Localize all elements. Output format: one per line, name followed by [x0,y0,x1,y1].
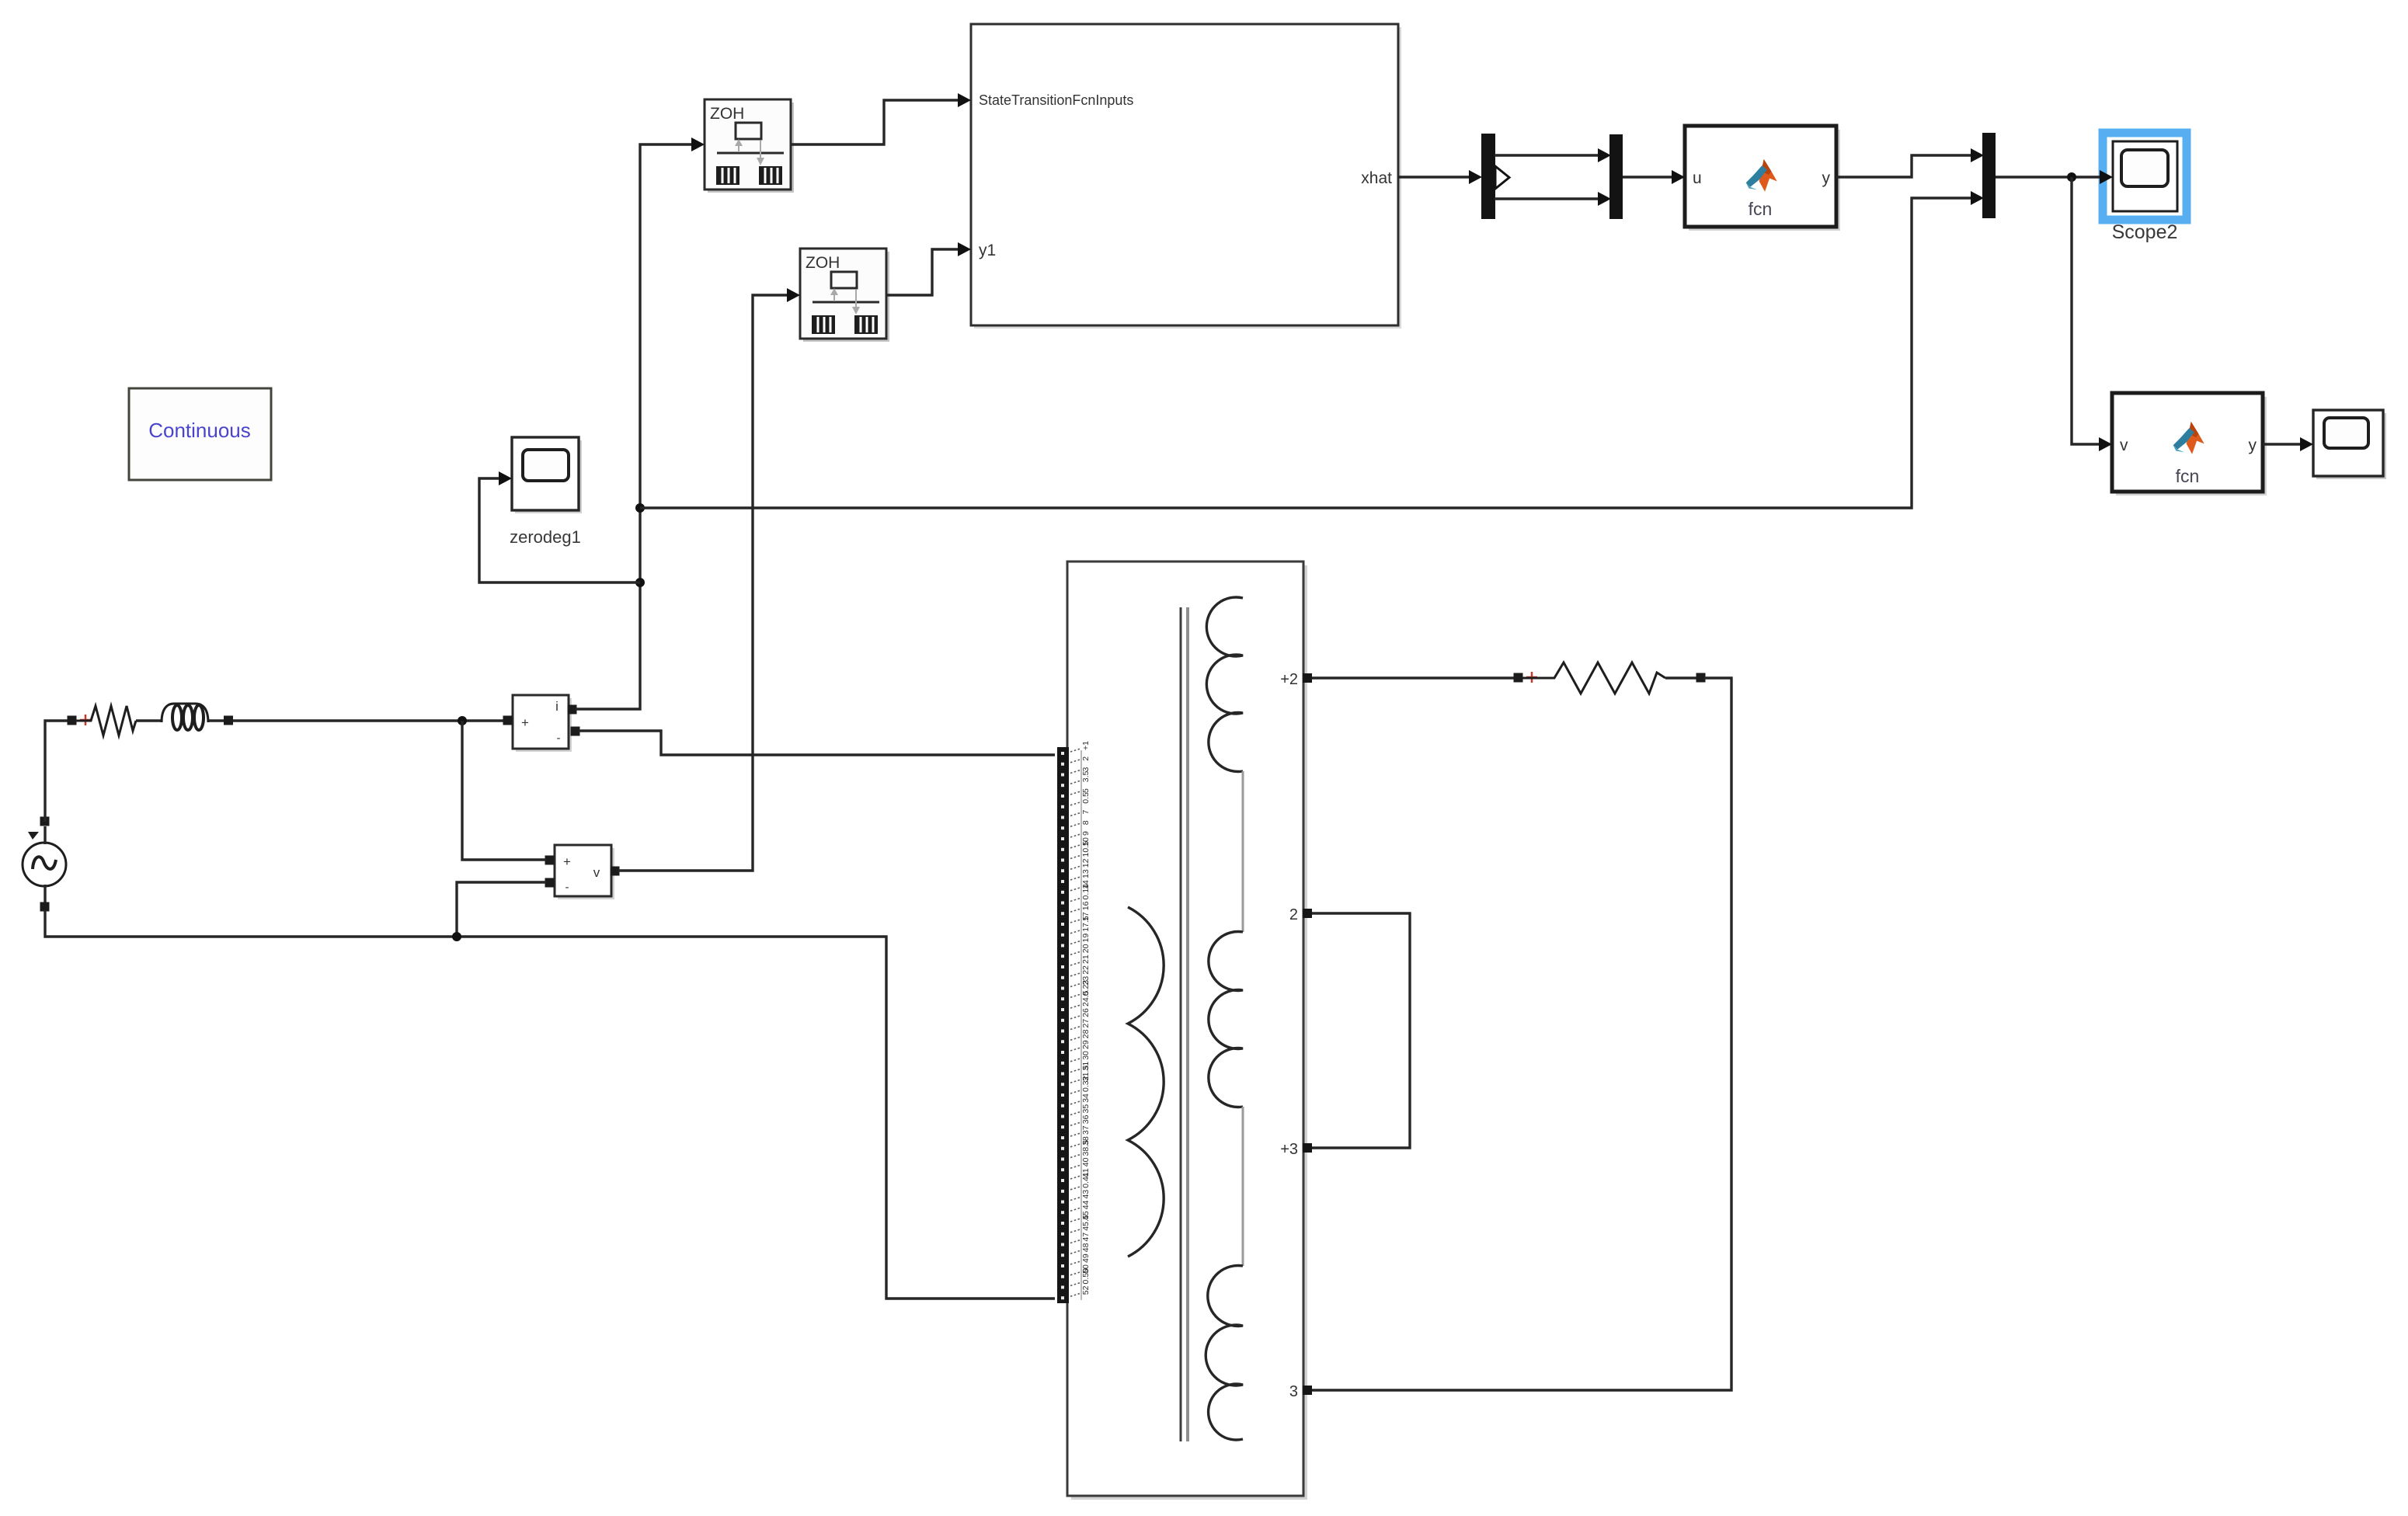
winding connector gray 2 [1242,1107,1244,1266]
svg-text:+3: +3 [1280,1141,1298,1158]
svg-text:0.14: 0.14 [1081,884,1091,900]
svg-text:+: + [563,854,571,869]
wire source stub top [43,826,46,844]
RL branch right port [224,716,233,725]
svg-text:y: y [1822,169,1831,187]
svg-text:3.5: 3.5 [1081,770,1091,782]
svg-text:ZOH: ZOH [710,105,744,123]
current measurement block [513,695,572,752]
MATLAB function fcn2 [2112,393,2267,495]
svg-text:49: 49 [1081,1253,1091,1263]
svg-text:-: - [557,732,561,745]
red polarity mark R2 [1526,672,1537,683]
powergui block Continuous [129,388,271,480]
svg-text:48: 48 [1081,1243,1091,1252]
wire source stub bottom [43,885,46,905]
voltage measurement block [555,845,614,899]
svg-text:44: 44 [1081,1200,1091,1209]
svg-text:Scope2: Scope2 [2112,221,2178,243]
svg-text:16: 16 [1081,901,1091,910]
svg-text:38.5: 38.5 [1081,1140,1091,1156]
wire v- to bottom rail [457,882,546,937]
port square +2 [1303,673,1312,683]
transformer primary winding arcs (left) [1128,907,1164,1257]
wire junction down to fcn2 v [2072,177,2104,444]
svg-text:27: 27 [1081,1019,1091,1028]
current meas - port [571,727,580,736]
junction node long-wire branch [635,503,645,513]
voltage - port [545,878,555,888]
wire R2 down to port 3 [1312,678,1731,1390]
wire ZOH2 to subsystem y1 [886,249,962,295]
svg-text:13: 13 [1081,869,1091,878]
wire demux out top [1495,154,1602,156]
scope zerodeg1 [510,437,582,547]
svg-text:21: 21 [1081,954,1091,964]
svg-text:5: 5 [1081,788,1091,793]
svg-text:20: 20 [1081,944,1091,953]
demux selector bar [1481,134,1509,219]
svg-text:2: 2 [1289,906,1298,923]
long wire to mux2 lower input [640,198,1975,508]
svg-text:30: 30 [1081,1051,1091,1060]
wire R2 inner right [1665,676,1697,679]
rate transition ZOH2 [800,249,889,342]
svg-text:28: 28 [1081,1029,1091,1038]
Scope2 (selected) [2103,133,2187,243]
svg-text:43: 43 [1081,1190,1091,1199]
inductor L1 [162,704,208,730]
wire source bottom [45,910,1055,1299]
wire ZOH1 to subsystem input 1 [791,100,962,144]
svg-text:2: 2 [1081,756,1091,761]
svg-text:7: 7 [1081,810,1091,815]
svg-text:12: 12 [1081,858,1091,868]
transformer core line gray [1186,607,1189,1441]
wire fcn2 y to scope [2263,443,2305,445]
junction node zerodeg branch [635,578,645,587]
svg-text:52: 52 [1081,1285,1091,1295]
svg-text:zerodeg1: zerodeg1 [510,527,581,547]
arrow into small scope [2300,437,2313,451]
arrow into mux1 bottom [1598,192,1611,206]
wire demux out bottom [1495,197,1602,200]
AC voltage source [23,832,66,886]
svg-text:+1: +1 [1081,741,1091,750]
junction node scope2 branch [2067,172,2076,182]
port square +3 [1303,1143,1312,1153]
svg-text:v: v [2120,436,2128,454]
wire xhat to demux [1398,176,1474,178]
multiwinding transformer block [1067,562,1307,1500]
svg-text:u: u [1693,169,1702,187]
winding connector gray 1 [1242,771,1244,932]
port square 3 [1303,1386,1312,1395]
rate transition ZOH1 [705,99,794,193]
port square 2 [1303,909,1312,918]
svg-text:47: 47 [1081,1233,1091,1242]
svg-text:StateTransitionFcnInputs: StateTransitionFcnInputs [979,92,1133,108]
svg-text:17.5: 17.5 [1081,916,1091,932]
arrow into subsystem y1 [958,242,971,256]
arrow into fcn2 v [2099,437,2112,451]
wire i output up to ZOH1 [576,144,696,709]
mux bar 1 [1609,134,1623,219]
winding 2 coil [1206,597,1243,772]
resistor R2 [1522,662,1665,694]
svg-text:3: 3 [1289,1383,1298,1400]
svg-text:35: 35 [1081,1104,1091,1114]
svg-text:fcn: fcn [2176,466,2200,486]
wire mux2 to Scope2 [1996,176,2104,178]
winding 3 coil [1209,932,1243,1107]
svg-text:xhat: xhat [1361,169,1392,187]
arrow into zerodeg1 [499,471,512,485]
arrow into ZOH2 [787,288,800,302]
source top port [40,817,50,826]
wire mux1 to fcn1 [1623,176,1676,178]
svg-text:0.50: 0.50 [1081,1268,1091,1285]
arrow into mux2 lower [1971,191,1984,205]
svg-text:26: 26 [1081,1008,1091,1017]
voltage + port [545,856,555,865]
svg-text:0.41: 0.41 [1081,1172,1091,1188]
current meas + port [503,716,513,725]
transformer tap port strip [1057,747,1069,1303]
svg-text:22: 22 [1081,965,1091,975]
wire to zerodeg1 scope [479,478,640,582]
svg-text:9: 9 [1081,831,1091,836]
arrow into ZOH1 [691,137,705,151]
wire v output to ZOH2 [618,295,792,871]
wire current minus to transformer [579,731,1055,755]
svg-text:y: y [2249,436,2257,454]
svg-text:v: v [593,865,600,880]
svg-text:37: 37 [1081,1125,1091,1135]
arrow into mux1 top [1598,148,1611,162]
svg-text:19: 19 [1081,934,1091,943]
scope (small, right) [2313,410,2386,479]
svg-text:40: 40 [1081,1157,1091,1167]
svg-text:ZOH: ZOH [806,254,840,272]
resistor R1 [75,706,136,735]
arrow into mux2 top [1971,148,1984,162]
wire port 2 to port +3 loop [1312,913,1410,1148]
MATLAB function fcn1 [1685,126,1840,231]
arrow into Scope2 [2100,170,2113,184]
svg-text:Continuous: Continuous [148,419,251,442]
mux bar 2 [1982,133,1996,218]
junction node RL/v+ [458,716,467,725]
arrow into demux [1469,170,1482,184]
transformer core line dark [1180,607,1182,1441]
wire +2 to resistor R2 [1312,676,1515,679]
subsystem StateTransitionFcn [971,24,1401,329]
svg-text:+2: +2 [1280,671,1298,688]
source bottom port [40,902,50,912]
svg-text:fcn: fcn [1749,199,1773,219]
arrow into subsystem input 1 [958,93,971,107]
svg-text:24.5: 24.5 [1081,990,1091,1007]
svg-text:29: 29 [1081,1040,1091,1049]
svg-text:0.5: 0.5 [1081,792,1091,804]
winding 4 coil [1206,1265,1243,1440]
RL branch left port [68,716,77,725]
voltage v output port [611,867,620,876]
svg-text:y1: y1 [979,242,996,259]
wire L1 to current meas [208,719,504,721]
svg-text:10.5: 10.5 [1081,841,1091,857]
svg-text:i: i [555,699,559,714]
R2 right port [1696,673,1706,683]
svg-text:45.5: 45.5 [1081,1215,1091,1231]
svg-text:-: - [565,881,569,894]
svg-text:8: 8 [1081,820,1091,825]
svg-text:0.32: 0.32 [1081,1076,1091,1092]
R2 left port [1514,673,1523,683]
current meas i output port [568,705,577,715]
red polarity mark left [80,715,91,725]
junction node bottom rail [452,932,461,941]
transformer tap leaders and labels [1070,741,1091,1300]
wire source top [45,721,68,822]
wire junction to v+ [462,721,546,860]
svg-text:34: 34 [1081,1094,1091,1103]
arrow into fcn1 u [1672,170,1685,184]
svg-text:+: + [521,715,529,730]
wire fcn1 y to mux2 top [1836,155,1975,177]
wire R1 to L1 [136,719,162,721]
svg-text:36: 36 [1081,1114,1091,1124]
